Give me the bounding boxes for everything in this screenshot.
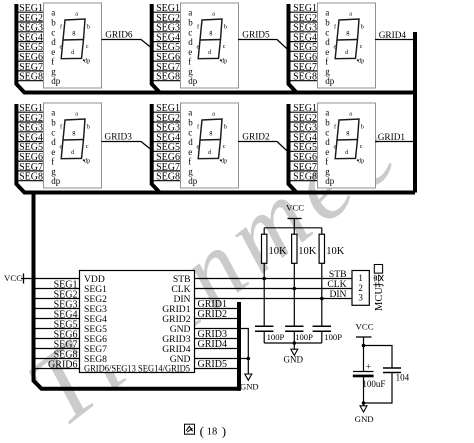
wires SEG1-8,GRID6 to U1 bbox=[36, 289, 80, 369]
wire VDD bbox=[21, 278, 80, 280]
resistor R2 10K bbox=[293, 228, 295, 289]
capacitor C1 100P bbox=[263, 279, 265, 327]
wire GRID1 bbox=[375, 141, 415, 143]
svg-text:10K: 10K bbox=[298, 246, 317, 257]
bus row2 right column bbox=[289, 104, 297, 193]
cap ground rail bbox=[264, 343, 322, 349]
svg-text:100P: 100P bbox=[295, 332, 313, 342]
svg-text:+: + bbox=[366, 361, 371, 371]
wire GRID4 bbox=[375, 39, 415, 41]
svg-text:GRID6: GRID6 bbox=[48, 359, 77, 370]
driver IC U1 box bbox=[80, 271, 195, 373]
svg-text:GRID5: GRID5 bbox=[198, 359, 227, 370]
svg-text:104: 104 bbox=[396, 373, 410, 383]
svg-text:18: 18 bbox=[207, 427, 218, 438]
U1 right pin labels bbox=[162, 274, 190, 365]
resistor R1 10K bbox=[263, 228, 265, 279]
svg-text:10K: 10K bbox=[269, 246, 288, 257]
svg-text:10K: 10K bbox=[326, 246, 345, 257]
svg-text:1: 1 bbox=[358, 273, 363, 283]
wires SEG1-8 display DS5 bbox=[153, 103, 181, 183]
wire STB bbox=[195, 278, 353, 280]
svg-text:3: 3 bbox=[358, 293, 363, 303]
svg-text:GND: GND bbox=[240, 381, 259, 391]
capacitor C2 100P bbox=[293, 289, 295, 327]
svg-text:GRID4: GRID4 bbox=[379, 31, 407, 41]
wire CLK bbox=[195, 288, 353, 290]
labels STB CLK DIN bbox=[327, 269, 346, 300]
bus row2 mid column bbox=[152, 104, 160, 193]
wires SEG1-8 display DS1 bbox=[16, 3, 44, 83]
capacitor C5 104 bbox=[383, 368, 401, 373]
glyph jie bbox=[374, 275, 384, 287]
svg-text:GRID2: GRID2 bbox=[242, 133, 270, 143]
junction dot GND bbox=[247, 357, 251, 361]
capacitor C3 100P bbox=[321, 299, 323, 327]
glyph tu (caption) bbox=[185, 424, 195, 434]
bus row1 mid column bbox=[152, 4, 160, 93]
bus row1 left column bbox=[16, 4, 415, 93]
svg-text:GRID1: GRID1 bbox=[378, 133, 406, 143]
svg-text:GRID2: GRID2 bbox=[198, 309, 227, 320]
bus chip-right vertical bbox=[237, 302, 241, 391]
bus row1 right column bbox=[289, 4, 297, 93]
U1 left wire labels bbox=[48, 279, 77, 370]
display DS6 bbox=[318, 103, 376, 188]
bus row2 left column bbox=[16, 104, 415, 193]
wire U1 GND pins bbox=[195, 329, 249, 375]
svg-text:GRID3: GRID3 bbox=[105, 133, 133, 143]
svg-text:MCU: MCU bbox=[374, 287, 385, 311]
U1 left pin labels bbox=[84, 274, 190, 375]
svg-text:VCC: VCC bbox=[286, 203, 304, 213]
ground caps bbox=[291, 349, 298, 355]
wire GRID3 bbox=[102, 142, 152, 150]
svg-text:GND: GND bbox=[170, 354, 191, 365]
svg-text:): ) bbox=[222, 424, 226, 439]
U1 right wire labels bbox=[198, 299, 227, 370]
resistor R3 10K bbox=[321, 228, 323, 299]
svg-text:GRID5: GRID5 bbox=[242, 31, 270, 41]
ground U1 bbox=[245, 374, 252, 380]
svg-text:GRID4: GRID4 bbox=[198, 339, 227, 350]
svg-text:DIN: DIN bbox=[329, 289, 346, 300]
display DS4 bbox=[44, 103, 102, 188]
svg-text:(: ( bbox=[200, 424, 204, 439]
wires SEG1-8 display DS3 bbox=[290, 3, 318, 83]
svg-text:100P: 100P bbox=[324, 332, 342, 342]
ground filter bbox=[363, 403, 365, 406]
svg-text:VCC: VCC bbox=[4, 273, 22, 283]
bus right vertical bbox=[413, 32, 417, 193]
wires SEG1-8 display DS6 bbox=[290, 103, 318, 183]
svg-text:GND: GND bbox=[284, 354, 304, 364]
svg-text:GRID6/SEG13 SEG14/GRID5: GRID6/SEG13 SEG14/GRID5 bbox=[84, 364, 190, 375]
display DS2 bbox=[181, 3, 239, 88]
wire GRID6 bbox=[102, 40, 152, 48]
display DS1 bbox=[44, 3, 102, 88]
wires SEG1-8 display DS4 bbox=[16, 103, 44, 183]
svg-text:100P: 100P bbox=[267, 332, 285, 342]
wires SEG1-8 display DS2 bbox=[153, 3, 181, 83]
svg-text:GRID6: GRID6 bbox=[105, 31, 133, 41]
wire DIN bbox=[195, 298, 353, 300]
label MCU interface (rotated) bbox=[374, 265, 386, 312]
glyph kou bbox=[374, 265, 382, 274]
wire GRID5 bbox=[238, 40, 287, 49]
svg-text:GND: GND bbox=[355, 414, 374, 424]
display DS5 bbox=[181, 103, 239, 188]
bus chip-left vertical bbox=[34, 193, 241, 389]
svg-text:100uF: 100uF bbox=[362, 379, 385, 389]
wire GRID2 bbox=[238, 142, 287, 151]
wire to C5 104 bbox=[364, 346, 393, 369]
display DS3 bbox=[318, 3, 376, 88]
caption fig 18 bbox=[185, 424, 227, 439]
wires GRID1-5 to bus bbox=[195, 309, 238, 369]
junction dots STB CLK DIN bbox=[262, 277, 266, 281]
svg-text:VCC: VCC bbox=[356, 322, 374, 332]
connector J1 MCU bbox=[352, 271, 369, 306]
